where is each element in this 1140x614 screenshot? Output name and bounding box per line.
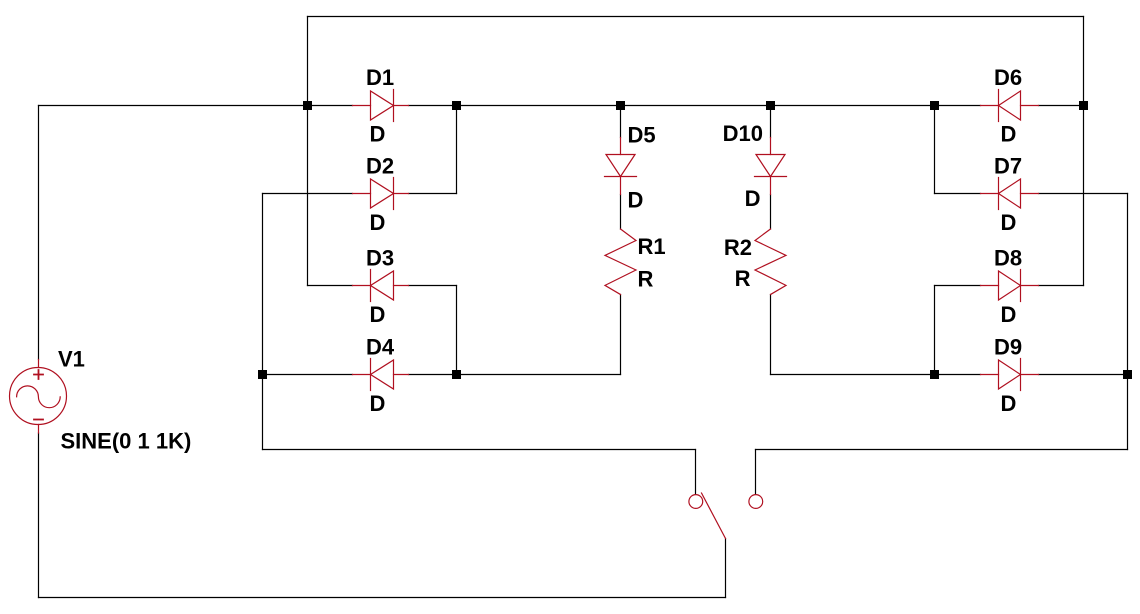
wire D10 to R2 — [770, 195, 772, 230]
wire x=262.5 vertical — [262, 194, 264, 450]
junction node row4 x=456.5 — [452, 370, 461, 379]
value label R2 R — [735, 266, 751, 291]
value label D1 D — [370, 122, 386, 147]
label D8 — [994, 246, 1022, 271]
wire row2 D2 right — [409, 193, 457, 195]
diode D7 — [981, 178, 1039, 210]
svg-text:D: D — [370, 210, 386, 235]
diode D1 — [353, 90, 409, 122]
svg-text:V1: V1 — [58, 347, 85, 372]
wire top horizontal — [308, 16, 1084, 18]
svg-text:D: D — [1001, 391, 1017, 416]
svg-text:R: R — [638, 267, 654, 292]
label R1 — [638, 234, 666, 259]
svg-text:SINE(0 1 1K): SINE(0 1 1K) — [61, 429, 192, 454]
switch contact left circle — [689, 495, 703, 509]
label D2 — [366, 154, 394, 179]
wire row3 D3 left — [308, 285, 353, 287]
svg-text:D1: D1 — [366, 65, 394, 90]
value label D9 D — [1001, 391, 1017, 416]
wire left vertical below V1 — [38, 433, 40, 598]
label D1 — [366, 65, 394, 90]
diode D3 — [353, 270, 409, 302]
wire row4 D4 right to R1 bottom — [409, 374, 621, 376]
resistor R1 — [605, 229, 636, 295]
wire switch pole vertical — [725, 539, 727, 598]
wire row2 D7 right — [1039, 193, 1128, 195]
svg-text:D: D — [628, 188, 644, 213]
wire row1 middle segment — [409, 105, 981, 107]
svg-text:D: D — [1001, 302, 1017, 327]
diode D6 — [981, 90, 1039, 122]
value label D7 D — [1001, 210, 1017, 235]
wire x=934.5 upper vertical — [934, 106, 936, 194]
diode D4 — [353, 359, 409, 391]
svg-text:D3: D3 — [366, 246, 394, 271]
label D5 — [628, 123, 656, 148]
svg-text:D: D — [370, 391, 386, 416]
label V1 — [58, 347, 85, 372]
wire row1 left segment — [39, 105, 353, 107]
wire x=1127.5 vertical — [1127, 194, 1129, 450]
switch contact right circle — [749, 495, 763, 509]
wire bottom horizontal — [39, 597, 726, 599]
svg-text:D: D — [370, 122, 386, 147]
junction node row1 x=1083.5 — [1079, 101, 1088, 110]
wire D5 column upper — [620, 106, 622, 138]
diode D2 — [353, 178, 409, 210]
value label D3 D — [370, 302, 386, 327]
wire row4 D9 right — [1039, 374, 1128, 376]
wire x=456.5 lower vertical — [456, 286, 458, 375]
wire row3 D3 right — [409, 285, 457, 287]
label D7 — [994, 154, 1022, 179]
svg-text:D5: D5 — [628, 123, 656, 148]
junction node row4 x=1127.5 — [1123, 370, 1132, 379]
resistor R2 — [755, 229, 786, 295]
diode D10 — [755, 138, 787, 195]
svg-text:D7: D7 — [994, 154, 1022, 179]
svg-text:D: D — [745, 186, 761, 211]
wire row2 D7 left — [935, 193, 981, 195]
diode D5 — [605, 138, 637, 195]
svg-text:D: D — [1001, 122, 1017, 147]
voltage source V1 — [10, 360, 67, 434]
junction node row4 x=262.5 — [258, 370, 267, 379]
svg-text:D: D — [1001, 210, 1017, 235]
wire R2 bottom vertical — [770, 295, 772, 375]
svg-text:D10: D10 — [723, 121, 763, 146]
value label D10 D — [745, 186, 761, 211]
svg-text:R: R — [735, 266, 751, 291]
wire D10 column upper — [770, 106, 772, 138]
svg-text:D: D — [370, 302, 386, 327]
label R2 — [724, 235, 752, 260]
wire y=449.5 left horizontal — [263, 449, 696, 451]
label D6 — [994, 65, 1022, 90]
svg-text:D6: D6 — [994, 65, 1022, 90]
wire left vertical above V1 — [38, 106, 40, 360]
junction node row1 x=307.5 — [303, 101, 312, 110]
wire left top vertical x=307.5 — [307, 17, 309, 286]
diode D9 — [981, 359, 1039, 391]
value label D5 D — [628, 188, 644, 213]
junction node row1 x=770.5 — [766, 101, 775, 110]
svg-text:D8: D8 — [994, 246, 1022, 271]
svg-text:D9: D9 — [994, 335, 1022, 360]
wire x=934.5 lower vertical — [934, 286, 936, 375]
wire D5 to R1 — [620, 195, 622, 230]
junction node row1 x=934.5 — [930, 101, 939, 110]
junction node row1 x=456.5 — [452, 101, 461, 110]
wire row1 right segment — [1039, 105, 1084, 107]
wire row3 D8 right — [1039, 285, 1084, 287]
svg-text:D4: D4 — [366, 335, 395, 360]
value label R1 R — [638, 267, 654, 292]
wire right top vertical x=1083.5 — [1083, 17, 1085, 286]
wire row4 D4 left — [263, 374, 353, 376]
wire R1 bottom vertical — [620, 295, 622, 375]
wire y=449.5 right horizontal — [756, 449, 1128, 451]
diode D8 — [981, 270, 1039, 302]
value label D4 D — [370, 391, 386, 416]
svg-text:R1: R1 — [638, 234, 666, 259]
value label D6 D — [1001, 122, 1017, 147]
switch lever — [702, 493, 726, 539]
value label D8 D — [1001, 302, 1017, 327]
label D10 — [723, 121, 763, 146]
label D9 — [994, 335, 1022, 360]
svg-text:R2: R2 — [724, 235, 752, 260]
wire row4 R2 bottom to D9 left — [771, 374, 981, 376]
junction node row4 x=934.5 — [930, 370, 939, 379]
value label D2 D — [370, 210, 386, 235]
wire switch left terminal vertical — [695, 450, 697, 495]
label D3 — [366, 246, 394, 271]
wire row3 D8 left — [935, 285, 981, 287]
junction node row1 x=620.5 — [616, 101, 625, 110]
wire row2 D2 left — [263, 193, 353, 195]
label D4 — [366, 335, 395, 360]
wire switch right terminal vertical — [755, 450, 757, 495]
value label SINE(0 1 1K) — [61, 429, 192, 454]
wire x=456.5 upper vertical — [456, 106, 458, 194]
svg-text:D2: D2 — [366, 154, 394, 179]
